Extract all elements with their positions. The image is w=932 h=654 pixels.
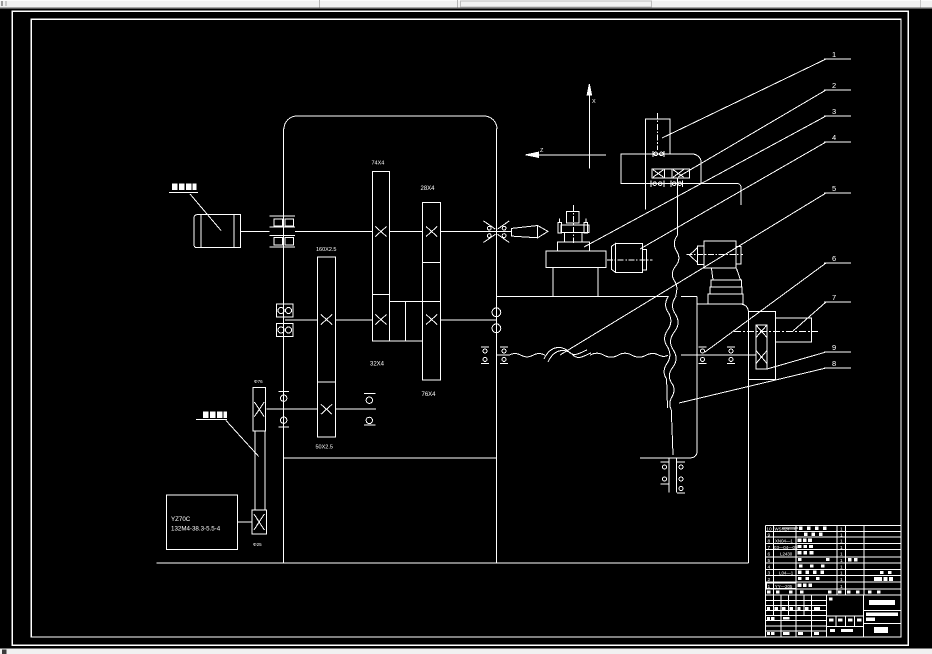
parts list column lines	[772, 525, 774, 595]
lead screw bearings	[481, 346, 489, 348]
bed break line pair	[669, 296, 678, 455]
header row marks	[767, 590, 771, 593]
svg-text:1: 1	[832, 50, 836, 59]
svg-text:XN04—1: XN04—1	[775, 539, 793, 544]
svg-text:Φ25: Φ25	[253, 542, 262, 547]
svg-text:YY—205: YY—205	[775, 584, 793, 589]
title block texts	[767, 597, 898, 635]
lead screw shaft	[496, 354, 509, 356]
spindle head box	[621, 154, 701, 184]
belt pulley P2	[252, 510, 267, 534]
svg-text:10: 10	[766, 527, 772, 533]
label text: belt drive	[172, 184, 227, 419]
parts list row lines	[766, 531, 901, 533]
gear column C3 (160X2.5 / 50X2.5)	[318, 257, 336, 382]
gearbox left wall	[283, 129, 285, 564]
svg-text:50X2.5: 50X2.5	[316, 445, 333, 451]
machine axis symbol	[588, 84, 590, 168]
svg-text:28X4: 28X4	[421, 186, 436, 192]
bevel gear pair on wall	[484, 221, 496, 243]
svg-text:76X4: 76X4	[422, 392, 437, 398]
svg-text:Φ76: Φ76	[254, 379, 263, 384]
status strip bottom	[0, 649, 932, 654]
bearing shaft III right	[364, 393, 376, 395]
duct bend	[712, 269, 714, 281]
svg-text:9: 9	[832, 343, 836, 352]
svg-text:X: X	[592, 99, 596, 105]
svg-text:1: 1	[840, 571, 843, 577]
sliding cluster coupling box	[389, 302, 422, 341]
motor nameplate text	[171, 516, 221, 533]
svg-text:03—04—05: 03—04—05	[774, 545, 798, 550]
title block left grid	[826, 595, 828, 637]
leader 3	[584, 116, 826, 247]
svg-text:1: 1	[840, 584, 843, 590]
motor M1 body	[194, 215, 201, 248]
svg-text:1: 1	[840, 577, 843, 583]
spindle output shaft	[776, 318, 812, 342]
svg-text:4: 4	[832, 133, 836, 142]
svg-text:1: 1	[840, 532, 843, 538]
gear column C1 (74X4 / 32X4)	[372, 171, 389, 294]
svg-text:WSN24—4: WSN24—4	[775, 527, 798, 532]
svg-text:1: 1	[840, 527, 843, 533]
svg-text:L04—1: L04—1	[779, 571, 794, 576]
gearbox bottom line	[284, 457, 497, 459]
toolbar strip top	[0, 0, 932, 9]
tailstock clamp column	[567, 211, 579, 222]
parts list name blocks	[767, 527, 893, 594]
title block right cell	[864, 610, 901, 612]
bearing shaft II right (wall)	[492, 308, 501, 317]
leader 8	[679, 368, 826, 403]
svg-text:1: 1	[840, 545, 843, 551]
gear column C2 (28X4 / 76X4)	[423, 203, 441, 263]
leader 2	[678, 90, 826, 177]
svg-text:8: 8	[768, 539, 771, 545]
parts list table frame	[765, 525, 767, 637]
svg-text:1: 1	[840, 539, 843, 545]
vertical screw below bed	[668, 458, 670, 493]
svg-text:160X2.5: 160X2.5	[316, 247, 337, 253]
feed motor M2	[611, 243, 615, 272]
svg-text:8: 8	[832, 359, 836, 368]
gear labels	[253, 161, 436, 548]
leader 7	[793, 302, 826, 331]
base ground line	[157, 562, 749, 564]
svg-text:YZ70C: YZ70C	[171, 516, 191, 523]
bearing shaft III left	[279, 391, 290, 393]
belt pulley P1	[253, 388, 266, 431]
svg-text:2: 2	[832, 81, 836, 90]
svg-text:1: 1	[840, 558, 843, 564]
spindle slide box	[749, 312, 776, 380]
machine bed top	[496, 295, 668, 297]
spindle head cylinder	[645, 119, 670, 154]
svg-text:74X4: 74X4	[372, 161, 385, 167]
callout numbers	[832, 50, 836, 368]
svg-text:3: 3	[832, 107, 836, 116]
code cell box row1	[767, 583, 796, 589]
svg-text:3: 3	[768, 571, 771, 577]
leader 6	[705, 263, 826, 352]
timing belt	[254, 431, 256, 510]
leader 5	[560, 193, 826, 355]
bevel gear box in head	[652, 169, 690, 178]
bearing shaft II left	[277, 304, 294, 317]
svg-text:5: 5	[832, 184, 836, 193]
shaft III	[266, 408, 317, 410]
label: timing belt (mid-left)	[196, 419, 227, 421]
svg-text:7: 7	[768, 545, 771, 551]
svg-text:7: 7	[832, 293, 836, 302]
title block middle cell	[827, 615, 864, 617]
shaft II	[285, 319, 318, 321]
duct from head to feed motor M3	[701, 184, 741, 206]
svg-text:2: 2	[768, 577, 771, 583]
break line (shaft, wavy)	[672, 235, 679, 296]
feed motor M3 (right)	[690, 248, 698, 263]
gearbox housing outline	[297, 116, 497, 129]
svg-text:5: 5	[768, 558, 771, 564]
spindle bearing stack	[756, 325, 767, 369]
head bearings	[652, 151, 654, 157]
svg-text:L2430: L2430	[780, 552, 793, 557]
leader 9	[767, 352, 826, 369]
tailstock base	[546, 251, 606, 268]
leader 4	[640, 142, 826, 249]
vertical drive shaft	[677, 178, 679, 235]
svg-text:6: 6	[832, 254, 836, 263]
svg-text:132M4-38.3-5.5-4: 132M4-38.3-5.5-4	[171, 526, 221, 533]
gearbox right wall	[495, 129, 497, 564]
svg-text:4: 4	[768, 564, 771, 570]
svg-text:32X4: 32X4	[370, 362, 385, 368]
tailstock centerline	[572, 205, 574, 243]
leader 1	[662, 59, 826, 138]
svg-text:1: 1	[840, 552, 843, 558]
belt pulley on input shaft	[270, 215, 296, 217]
drive motor box	[166, 495, 237, 549]
svg-text:1: 1	[840, 564, 843, 570]
svg-text:6: 6	[768, 552, 771, 558]
input shaft I	[241, 231, 270, 233]
workpiece arbor (pointed)	[512, 226, 548, 238]
label: belt drive (top-left)	[169, 192, 198, 194]
svg-text:9: 9	[768, 532, 771, 538]
parts list texts	[766, 527, 843, 590]
